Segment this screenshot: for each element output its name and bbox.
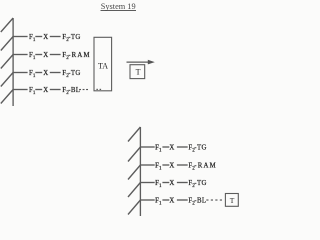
row 4 bottom label: F1-X-F2-BL <box>155 197 206 206</box>
bond X-F2, row 3 bottom <box>177 182 188 184</box>
wire: wall to F1, row 1 bottom <box>140 146 154 148</box>
bond X-F2, row 4 top <box>50 89 61 91</box>
svg-text:X: X <box>169 144 174 151</box>
svg-text:X: X <box>43 87 48 94</box>
row 3 bottom label: F1-X-F2-TG <box>155 180 207 189</box>
svg-text:System 19: System 19 <box>101 2 136 11</box>
box T (bottom) <box>225 194 238 207</box>
svg-text:1: 1 <box>33 90 36 96</box>
hatch mark 2 bottom wall <box>128 147 140 162</box>
hatch mark 1 top wall <box>1 18 13 32</box>
row 1 bottom label: F1-X-F2-TG <box>155 144 207 153</box>
bond F1-X, row 1 bottom <box>162 146 169 148</box>
svg-text:X: X <box>43 70 48 77</box>
hatch mark 3 top wall <box>1 55 13 69</box>
svg-text:TA: TA <box>98 61 108 70</box>
hatch mark 5 top wall <box>1 90 13 104</box>
hatch mark 4 top wall <box>1 73 13 87</box>
svg-text:1: 1 <box>33 73 36 79</box>
svg-text:T: T <box>136 68 141 77</box>
wire: wall to F1, row 4 bottom <box>140 199 154 201</box>
svg-text:T: T <box>230 196 235 205</box>
bond F1-X, row 4 top <box>35 89 42 91</box>
bond X-F2, row 3 top <box>50 72 61 74</box>
bond F1-X, row 2 bottom <box>162 164 169 166</box>
bond X-F2, row 2 bottom <box>177 164 188 166</box>
svg-text:-BL: -BL <box>68 87 80 94</box>
svg-text:1: 1 <box>33 37 36 43</box>
bond X-F2, row 4 bottom <box>177 199 188 201</box>
hatch mark 5 bottom wall <box>128 200 140 215</box>
bond X-F2, row 1 top <box>50 36 61 38</box>
wire: wall to F1, row 4 top <box>13 89 28 91</box>
svg-text:-TG: -TG <box>194 144 207 151</box>
wire: wall to F1, row 2 bottom <box>140 164 154 166</box>
hatch mark 3 bottom wall <box>128 165 140 180</box>
title underline <box>101 10 137 12</box>
wire: wall to F1, row 3 bottom <box>140 182 154 184</box>
svg-text:-TG: -TG <box>68 70 81 77</box>
bond F1-X, row 3 bottom <box>162 182 169 184</box>
row 2 bottom label: F1-X-F2-RAM <box>155 162 217 171</box>
dotted linker row 4 bottom to box T <box>206 199 222 200</box>
bond F1-X, row 3 top <box>35 72 42 74</box>
row 1 top label: F1-X-F2-TG <box>29 34 81 43</box>
wire: wall to F1, row 1 top <box>13 36 28 38</box>
box TA <box>94 37 112 91</box>
hatch mark 2 top wall <box>1 37 13 51</box>
bond F1-X, row 1 top <box>35 36 42 38</box>
svg-text:X: X <box>169 197 174 204</box>
support wall (top assembly) vertical line <box>12 18 14 106</box>
svg-text:X: X <box>43 52 48 59</box>
support wall (bottom assembly) vertical line <box>139 127 141 216</box>
svg-text:1: 1 <box>33 55 36 61</box>
svg-text:X: X <box>169 180 174 187</box>
svg-text:-RAM: -RAM <box>194 162 217 169</box>
bond F1-X, row 2 top <box>35 54 42 56</box>
hatch mark 1 bottom wall <box>128 127 140 142</box>
reaction arrow shaft <box>127 61 149 63</box>
dotted linker row 4 top into box TA <box>79 89 101 90</box>
wire: wall to F1, row 3 top <box>13 72 28 74</box>
box T (top) <box>130 65 145 79</box>
bond X-F2, row 1 bottom <box>177 146 188 148</box>
row 2 top label: F1-X-F2-RAM <box>29 52 91 61</box>
bond F1-X, row 4 bottom <box>162 199 169 201</box>
svg-text:-TG: -TG <box>194 180 207 187</box>
svg-text:X: X <box>169 162 174 169</box>
svg-text:-TG: -TG <box>68 34 81 41</box>
hatch mark 4 bottom wall <box>128 183 140 198</box>
row 3 top label: F1-X-F2-TG <box>29 70 81 79</box>
wire: wall to F1, row 2 top <box>13 54 28 56</box>
svg-text:-BL: -BL <box>194 197 206 204</box>
bond X-F2, row 2 top <box>50 54 61 56</box>
row 4 top label: F1-X-F2-BL <box>29 87 80 96</box>
arrowhead of reaction arrow <box>148 60 155 65</box>
svg-text:X: X <box>43 34 48 41</box>
svg-text:-RAM: -RAM <box>68 52 91 59</box>
